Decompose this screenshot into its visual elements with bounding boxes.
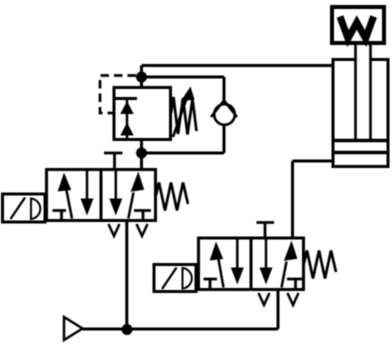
V1 exhaust port left	[109, 224, 120, 236]
plug T valve V1 port	[104, 153, 123, 170]
load box W	[332, 7, 384, 43]
counterbalance adjust arrow	[173, 96, 188, 137]
V2 left arrow up	[219, 260, 224, 288]
V1 spring	[156, 183, 188, 211]
counterbalance seat bar	[115, 97, 137, 100]
wire counterbalance top	[140, 66, 143, 88]
V1 right arrow up	[128, 193, 133, 219]
valve V2 divider	[250, 238, 253, 290]
valve V1 body	[47, 170, 156, 221]
piston rod	[356, 45, 371, 140]
V2 spring	[304, 251, 336, 279]
V1 right plug T	[134, 211, 151, 220]
load label W	[340, 17, 374, 39]
check valve seat	[211, 101, 237, 118]
counterbalance flow line	[126, 99, 129, 140]
V1 roller lever box	[3, 194, 46, 222]
V1 roller	[31, 199, 40, 220]
wire bottom bus	[83, 328, 279, 331]
wire to valve V2	[291, 161, 294, 238]
junction node bottom	[122, 324, 133, 335]
V2 exhaust port left	[259, 293, 270, 305]
pilot line (dashed)	[100, 76, 136, 114]
V1 right arrow down	[115, 170, 118, 202]
wire check valve return	[142, 152, 225, 155]
wire V1 supply	[125, 221, 128, 330]
junction node top	[136, 72, 147, 83]
counterbalance valve body	[114, 88, 171, 140]
V1 left arrow down	[86, 170, 89, 202]
cylinder body	[333, 60, 388, 167]
V1 left arrow up	[67, 191, 73, 219]
V2 roller	[183, 268, 192, 289]
wire V2 supply	[277, 290, 280, 330]
counterbalance arrow 1	[120, 101, 133, 114]
V2 right arrow up	[282, 262, 287, 288]
pressure source	[64, 317, 83, 340]
check valve line top	[223, 77, 226, 101]
counterbalance adjust arrowhead	[181, 87, 195, 102]
V2 exhaust port right	[288, 293, 299, 305]
wire cylinder top port	[142, 64, 334, 67]
junction node mid	[136, 148, 147, 159]
check valve ball	[214, 104, 235, 125]
wire cylinder bottom port	[293, 160, 334, 163]
V1 left plug T	[53, 211, 67, 220]
wire to check valve top	[142, 76, 225, 79]
counterbalance arrow 2	[120, 123, 133, 136]
V2 roller lever box	[154, 265, 196, 292]
check valve line bottom	[223, 125, 226, 153]
plug T valve V2 port	[257, 223, 275, 239]
V2 right plug T	[287, 279, 304, 288]
V2 left arrow down	[236, 239, 239, 272]
V1 roller lever arm	[11, 198, 26, 220]
valve V2 body	[199, 238, 304, 290]
V1 exhaust port right	[137, 224, 148, 236]
counterbalance spring	[171, 97, 197, 135]
V2 right arrow down	[265, 239, 268, 272]
valve V1 divider	[100, 170, 103, 221]
piston	[334, 141, 387, 153]
wire counterbalance bottom to valve V1	[140, 140, 143, 171]
V2 left plug T	[204, 279, 218, 288]
V2 roller lever arm	[162, 268, 177, 290]
